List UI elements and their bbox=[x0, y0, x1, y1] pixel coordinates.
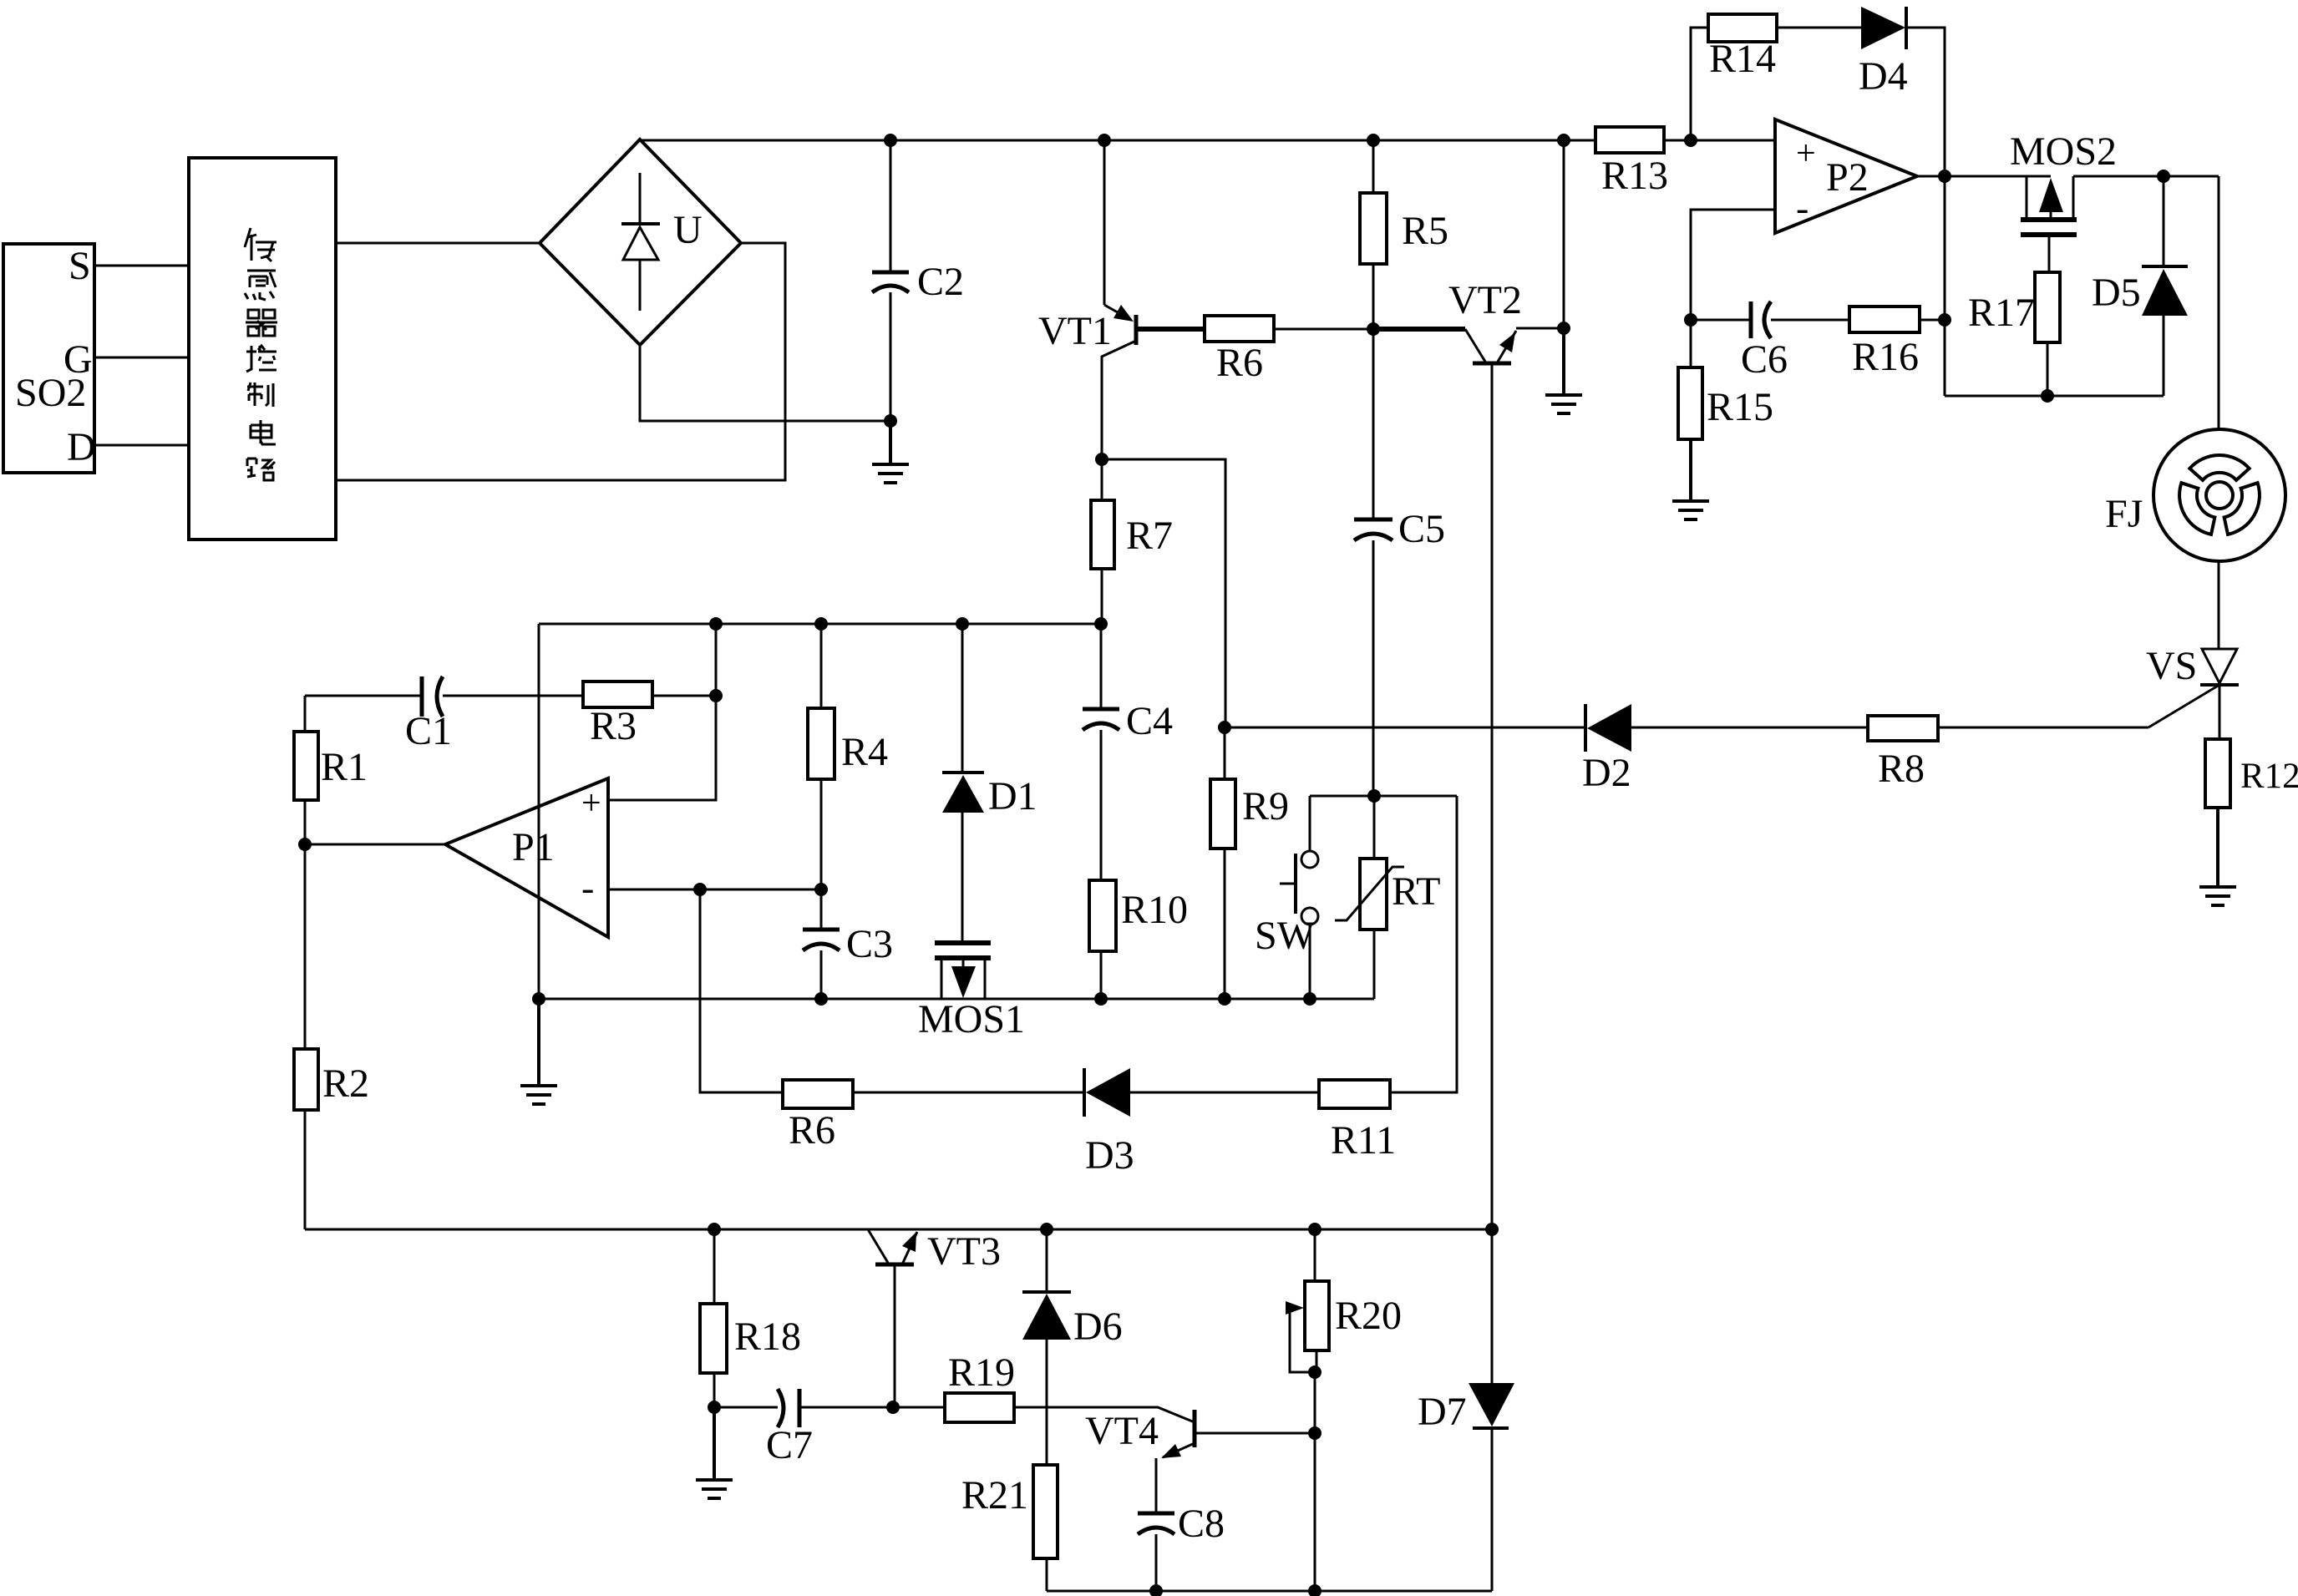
svg-text:R8: R8 bbox=[1878, 747, 1925, 791]
resistor R21 bbox=[961, 1465, 1058, 1591]
node R9 / gate line bbox=[1218, 721, 1231, 734]
wire MOS2 to FJ bbox=[2073, 175, 2219, 178]
node P1 output bbox=[298, 838, 312, 851]
svg-text:-: - bbox=[581, 866, 594, 909]
resistor R6 (lower) bbox=[783, 1080, 1084, 1153]
ground under VT2 emitter bbox=[1545, 328, 1582, 413]
node VT4 collector bbox=[1308, 1426, 1321, 1440]
node R20 wiper bbox=[1308, 1365, 1321, 1379]
node D5 top bbox=[2157, 170, 2170, 183]
block sensor control circuit 传感器控制电路 bbox=[189, 158, 336, 540]
wire sensor box lower to bridge AC right bbox=[336, 243, 785, 480]
wire lower bus bbox=[539, 998, 1374, 1001]
wire bridge bottom to C2 ground rail bbox=[640, 345, 890, 421]
transistor VT3 bbox=[868, 1229, 1001, 1407]
resistor R3 bbox=[583, 681, 716, 748]
svg-text:MOS1: MOS1 bbox=[918, 997, 1025, 1041]
wire D pin bbox=[94, 444, 189, 447]
wire bottom rail bbox=[1047, 1590, 1492, 1593]
svg-text:R2: R2 bbox=[322, 1061, 369, 1106]
node R4 branch bbox=[814, 617, 828, 631]
svg-text:D6: D6 bbox=[1073, 1305, 1123, 1349]
ground under lower bus bbox=[520, 999, 557, 1104]
diode D7 bbox=[1418, 1229, 1514, 1591]
resistor R2 bbox=[294, 844, 369, 1229]
svg-text:P2: P2 bbox=[1826, 155, 1869, 200]
node lower bus ground bbox=[532, 992, 545, 1006]
resistor R11 bbox=[1319, 796, 1457, 1163]
svg-text:+: + bbox=[581, 784, 601, 823]
svg-text:VT1: VT1 bbox=[1038, 309, 1112, 353]
wire feedback branch down bbox=[700, 889, 783, 1092]
node VT1 emitter / R7 bbox=[1095, 453, 1108, 466]
diode D2 bbox=[1582, 704, 1631, 795]
capacitor C1 bbox=[305, 676, 583, 753]
svg-text:R19: R19 bbox=[948, 1350, 1015, 1395]
potentiometer R20 bbox=[1286, 1229, 1402, 1591]
fan FJ bbox=[2105, 176, 2285, 649]
svg-text:C2: C2 bbox=[917, 260, 964, 304]
op-amp P1 bbox=[305, 778, 608, 937]
capacitor C4 bbox=[1083, 624, 1173, 880]
node R3 branch bbox=[709, 617, 723, 631]
node C2 top bbox=[884, 134, 897, 147]
label 传 bbox=[245, 228, 276, 261]
svg-text:R17: R17 bbox=[1968, 291, 2035, 335]
svg-text:R10: R10 bbox=[1121, 888, 1188, 932]
svg-text:MOS2: MOS2 bbox=[2010, 129, 2117, 174]
node R6/R5/VT2 base bbox=[1367, 322, 1380, 336]
node R18/C7 bbox=[708, 1401, 721, 1414]
label 器 bbox=[246, 310, 277, 336]
svg-text:C7: C7 bbox=[766, 1423, 813, 1467]
svg-text:D: D bbox=[67, 425, 96, 469]
node VT2 ground branch top bbox=[1557, 134, 1570, 147]
node C5 bottom bbox=[1367, 789, 1381, 803]
resistor R1 bbox=[294, 696, 368, 844]
svg-text:S: S bbox=[68, 244, 91, 288]
node R14/P2 plus input bbox=[1684, 134, 1697, 147]
svg-text:FJ: FJ bbox=[2105, 492, 2143, 536]
svg-text:RT: RT bbox=[1392, 869, 1440, 914]
ground under R12 bbox=[2199, 808, 2236, 905]
svg-text:R1: R1 bbox=[321, 745, 368, 789]
svg-text:D5: D5 bbox=[2092, 271, 2141, 315]
node R16/output branch bbox=[1938, 313, 1951, 327]
thyristor VS bbox=[2146, 644, 2239, 739]
node R9 bottom bbox=[1218, 992, 1231, 1006]
ground under R15 bbox=[1672, 439, 1709, 519]
resistor R4 bbox=[808, 624, 888, 889]
op-amp P2 bbox=[1775, 119, 1917, 233]
svg-text:D7: D7 bbox=[1418, 1390, 1467, 1434]
svg-text:VT3: VT3 bbox=[927, 1229, 1001, 1274]
node D6 top bbox=[1040, 1223, 1053, 1236]
switch SW bbox=[1255, 796, 1318, 999]
diode D5 bbox=[2092, 176, 2188, 396]
svg-text:VT4: VT4 bbox=[1085, 1409, 1159, 1453]
node R7 bottom bbox=[1094, 617, 1108, 631]
svg-text:R13: R13 bbox=[1601, 154, 1668, 198]
resistor R15 bbox=[1678, 320, 1773, 439]
wire P2 output bbox=[1917, 175, 2051, 178]
svg-text:C1: C1 bbox=[405, 709, 452, 753]
wire gate line R9 to VS bbox=[1225, 727, 2148, 729]
svg-text:R6: R6 bbox=[1216, 341, 1263, 385]
resistor R9 bbox=[1210, 727, 1289, 999]
svg-text:VT2: VT2 bbox=[1448, 278, 1522, 322]
wire sensor box to bridge AC left bbox=[336, 242, 540, 245]
resistor R13 bbox=[1595, 127, 1668, 198]
resistor R18 bbox=[700, 1229, 801, 1407]
node C7/VT3 collector/R19 bbox=[886, 1401, 900, 1414]
diode D3 bbox=[1084, 1068, 1319, 1178]
wire P2 output branch down bbox=[1944, 176, 1946, 396]
svg-text:G: G bbox=[63, 337, 93, 382]
capacitor C2 bbox=[872, 140, 964, 421]
diode D4 bbox=[1859, 7, 1945, 176]
svg-text:R7: R7 bbox=[1126, 514, 1173, 558]
capacitor C8 bbox=[1138, 1502, 1225, 1591]
ground under C2 bbox=[872, 421, 909, 483]
node SW bottom bbox=[1303, 992, 1316, 1006]
wire P1 ground stem bbox=[538, 624, 540, 999]
capacitor C5 bbox=[1354, 329, 1445, 796]
wire S pin bbox=[94, 265, 189, 267]
wire mid supply bus bbox=[539, 623, 1101, 626]
svg-text:D2: D2 bbox=[1582, 751, 1631, 795]
resistor R8 bbox=[1868, 716, 1938, 791]
svg-text:SW: SW bbox=[1255, 914, 1316, 958]
svg-text:R21: R21 bbox=[961, 1473, 1028, 1517]
node R20 bottom bbox=[1308, 1584, 1321, 1596]
node R5 top bbox=[1367, 134, 1380, 147]
node D1 branch bbox=[956, 617, 969, 631]
label 控 bbox=[246, 346, 276, 372]
wire SW/RT top rail bbox=[1310, 795, 1457, 798]
svg-text:D3: D3 bbox=[1085, 1133, 1134, 1178]
svg-text:U: U bbox=[673, 208, 703, 252]
label 电 bbox=[251, 420, 276, 444]
svg-text:C6: C6 bbox=[1741, 337, 1788, 382]
svg-text:D4: D4 bbox=[1859, 54, 1908, 99]
label 路 bbox=[247, 459, 275, 480]
node VT2 emitter ground bbox=[1557, 322, 1570, 335]
node C6/R15 bbox=[1684, 313, 1697, 327]
node VT1 top bbox=[1098, 134, 1111, 147]
svg-text:R11: R11 bbox=[1331, 1118, 1396, 1163]
svg-text:R5: R5 bbox=[1402, 209, 1448, 253]
node bridge-C2 rail bbox=[884, 414, 897, 428]
block SO2 sensor bbox=[3, 244, 96, 473]
resistor R7 bbox=[1091, 459, 1173, 624]
svg-text:C5: C5 bbox=[1398, 507, 1445, 551]
svg-text:R18: R18 bbox=[734, 1315, 801, 1359]
svg-text:VS: VS bbox=[2146, 644, 2197, 688]
wire plus input branch bbox=[608, 624, 716, 800]
wire top supply bus bbox=[640, 139, 1775, 142]
node P2 output bbox=[1938, 170, 1951, 183]
label 制 bbox=[247, 383, 273, 407]
node minus/feedback bbox=[693, 883, 707, 896]
resistor R14 bbox=[1691, 14, 1861, 140]
resistor R12 bbox=[2205, 739, 2298, 808]
wire G pin bbox=[94, 357, 189, 359]
transistor VT4 bbox=[1085, 1409, 1315, 1513]
svg-text:R16: R16 bbox=[1852, 335, 1919, 379]
resistor R17 bbox=[1968, 272, 2060, 396]
capacitor C3 bbox=[803, 889, 893, 999]
svg-text:R15: R15 bbox=[1707, 385, 1773, 429]
wire bottom feed line bbox=[305, 1229, 1492, 1231]
svg-text:C8: C8 bbox=[1178, 1502, 1225, 1546]
node R3 right bbox=[709, 689, 723, 702]
capacitor C6 bbox=[1691, 301, 1849, 382]
svg-text:R9: R9 bbox=[1242, 784, 1289, 828]
svg-text:R4: R4 bbox=[841, 730, 888, 774]
label 感 bbox=[245, 271, 276, 300]
wire R6 to R5 node bbox=[1274, 328, 1373, 331]
svg-text:R6: R6 bbox=[789, 1108, 835, 1153]
svg-text:+: + bbox=[1796, 134, 1816, 173]
svg-text:R12: R12 bbox=[2240, 757, 2298, 796]
svg-text:R3: R3 bbox=[590, 704, 637, 748]
node R4/C3 bbox=[814, 883, 828, 896]
node R20 top bbox=[1308, 1223, 1321, 1236]
transistor VT2 bbox=[1373, 278, 1564, 1229]
transistor VT1 bbox=[1038, 140, 1205, 459]
wire bus to VT2 emitter bbox=[1563, 140, 1565, 328]
resistor R6 (upper) bbox=[1205, 316, 1274, 385]
resistor R16 bbox=[1849, 307, 1945, 379]
wire P2 minus input bbox=[1691, 210, 1775, 320]
diode D6 bbox=[1022, 1229, 1123, 1465]
svg-text:P1: P1 bbox=[512, 825, 555, 869]
wire minus input bbox=[608, 889, 821, 891]
svg-text:D1: D1 bbox=[988, 774, 1037, 818]
resistor R10 bbox=[1089, 880, 1188, 999]
bridge rectifier U bbox=[540, 139, 741, 345]
capacitor C7 bbox=[714, 1389, 893, 1467]
mosfet MOS1 bbox=[918, 813, 1025, 1041]
node R17 bottom bbox=[2041, 389, 2054, 403]
wire VT1 emitter to R9 branch bbox=[1102, 459, 1225, 727]
node VT2 collector / D7 bbox=[1485, 1223, 1499, 1236]
node C8 bottom bbox=[1149, 1584, 1163, 1596]
svg-text:R14: R14 bbox=[1709, 37, 1776, 81]
node C3 bottom bbox=[814, 992, 828, 1006]
node R18 top bbox=[708, 1223, 721, 1236]
thermistor RT bbox=[1335, 796, 1440, 999]
svg-text:C3: C3 bbox=[846, 922, 893, 966]
ground under R18 bbox=[696, 1407, 733, 1498]
svg-text:-: - bbox=[1796, 186, 1808, 229]
svg-text:R20: R20 bbox=[1335, 1294, 1402, 1338]
mosfet MOS2 bbox=[2010, 129, 2117, 272]
svg-text:C4: C4 bbox=[1126, 699, 1173, 743]
node R10 bottom bbox=[1094, 992, 1108, 1006]
wire source rail bbox=[1945, 395, 2164, 398]
resistor R19 bbox=[893, 1350, 1195, 1422]
diode D1 bbox=[942, 624, 1037, 818]
resistor R5 bbox=[1360, 140, 1448, 329]
